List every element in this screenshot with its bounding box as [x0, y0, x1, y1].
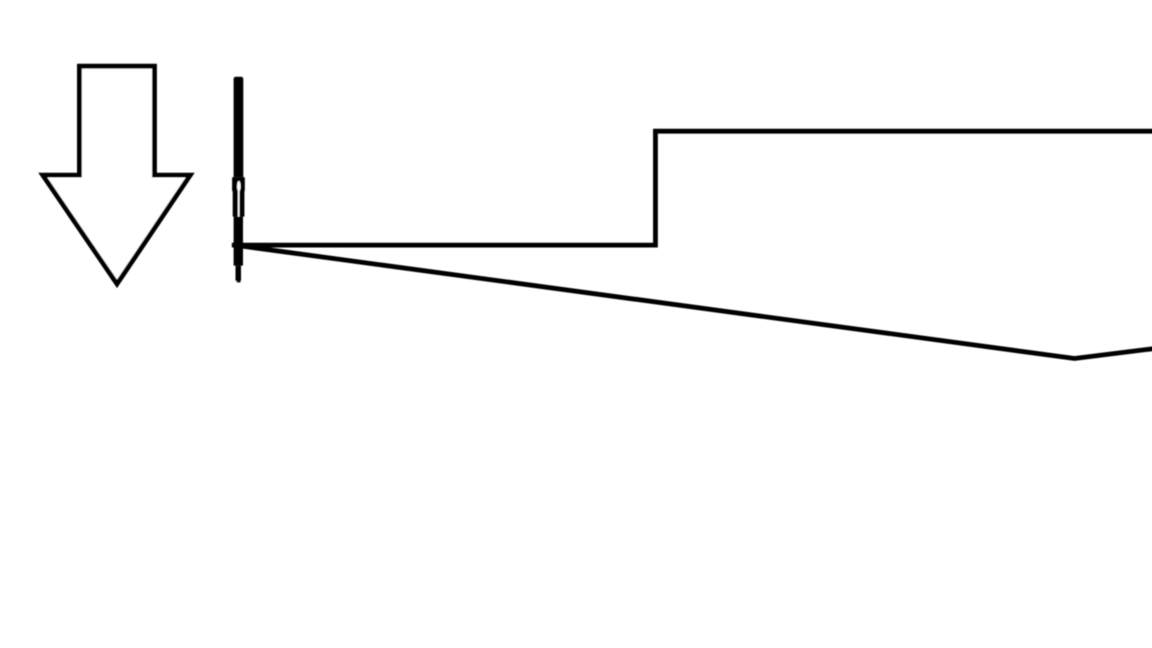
needle eye hole and groove (white): [237, 181, 241, 192]
needle taper: [236, 266, 242, 281]
needle eye block lower: [233, 191, 245, 217]
needle tip: [237, 281, 241, 283]
needle shaft: [234, 77, 244, 178]
needle lower shaft: [234, 217, 243, 266]
fabric step line: [232, 131, 1152, 245]
needle groove slit (white): [238, 191, 240, 217]
down arrow (force direction): [43, 66, 190, 284]
thread diagonal line: [237, 245, 1152, 358]
needle eye block: [232, 177, 245, 191]
